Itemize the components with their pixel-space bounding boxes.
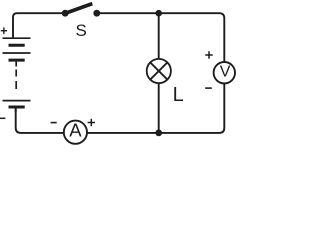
- svg-text:V: V: [220, 64, 231, 81]
- battery plate: long positive plate 3: [3, 100, 31, 102]
- wire: lamp junction along bottom to ammeter right side: [87, 132, 159, 134]
- wire: lamp branch from top junction down to lamp: [158, 13, 160, 60]
- switch S: [62, 4, 101, 40]
- svg-text:L: L: [173, 84, 184, 106]
- battery plate: short negative plate 1: [9, 44, 25, 47]
- wire: ammeter left side to bottom-left corner up to battery negative terminal: [16, 109, 64, 133]
- switch lever (open): [65, 4, 93, 14]
- ammeter A1: [64, 120, 87, 144]
- voltmeter - label: [205, 87, 212, 89]
- switch left contact dot: [62, 10, 69, 17]
- battery dashed continuation line: [15, 62, 17, 67]
- battery plate: long positive plate 1: [3, 37, 31, 39]
- svg-text:A: A: [69, 120, 82, 141]
- ammeter + label: [88, 119, 95, 126]
- wire: stub from negative plate 3 down: [15, 107, 17, 112]
- wire: lamp bottom down to bottom junction: [158, 82, 160, 133]
- battery B1 (multi-cell with dashed continuation): [3, 38, 31, 112]
- node: top junction dot: [155, 10, 162, 17]
- battery plate: long positive plate 2: [3, 52, 31, 54]
- node: bottom junction dot: [155, 130, 162, 137]
- voltmeter + label: [205, 51, 212, 58]
- battery - label: [0, 117, 5, 119]
- battery plate: short negative plate 2: [9, 59, 25, 62]
- ammeter - label: [51, 122, 57, 124]
- svg-text:S: S: [76, 21, 87, 40]
- wire: voltmeter bottom down to bottom-right corner and left to lamp junction: [159, 83, 225, 133]
- battery + label: [1, 27, 7, 34]
- voltmeter V1: [214, 62, 235, 83]
- battery plate: short negative plate 3: [9, 106, 25, 109]
- wire: battery positive terminal up to top-left corner and across to switch: [13, 13, 62, 38]
- switch right contact dot: [93, 10, 100, 17]
- wire: switch right contact to top-right corner, down to voltmeter top: [97, 13, 225, 62]
- lamp L: [147, 59, 171, 83]
